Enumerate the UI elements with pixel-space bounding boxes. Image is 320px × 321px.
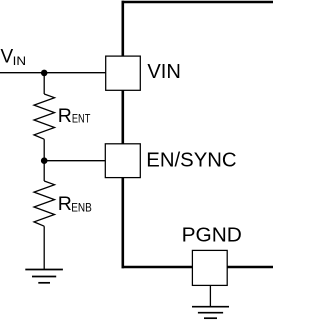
node B (EN/SYNC divider junction) [41,157,48,164]
svg-text:ENB: ENB [71,201,92,215]
wire: top bus (thick, corner to right edge) [122,1,274,4]
wire: R_ENB bottom to ground [43,226,45,269]
svg-text:IN: IN [13,54,26,68]
svg-text:EN/SYNC: EN/SYNC [146,149,236,171]
svg-text:ENT: ENT [72,111,91,125]
svg-text:V: V [1,47,14,68]
wire: bottom bus (thick, corner through PGND to right edge) [122,266,274,269]
svg-text:R: R [58,193,72,215]
ground (below R_ENB) [25,270,63,283]
wire: PGND pin to ground [209,285,211,306]
wire: node B to EN/SYNC pin [44,160,105,162]
resistor R_ENB (zigzag body) [34,181,55,226]
svg-text:VIN: VIN [147,61,181,83]
pin VIN (terminal box) [106,56,141,90]
resistor R_ENT (zigzag body) [34,94,55,139]
svg-text:R: R [58,105,72,127]
wire: node B to R_ENB top [43,161,45,181]
wire: node A to R_ENT top [43,73,45,94]
wire: VIN input wire (left edge to VIN pin) [0,72,106,74]
wire: IC left vertical bus (thick) [122,1,125,269]
ground (below PGND) [192,307,229,319]
pin EN/SYNC (terminal box) [105,144,140,178]
pin PGND (terminal box) [192,250,227,285]
wire: R_ENT bottom to node B [43,139,45,161]
node A (VIN divider junction) [41,70,48,77]
svg-text:PGND: PGND [182,224,242,246]
